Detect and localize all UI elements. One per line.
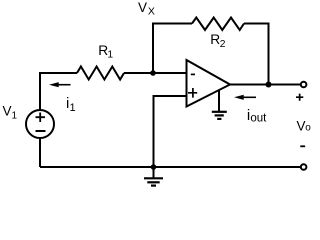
svg-text:o: o xyxy=(305,123,311,134)
output terminal bottom xyxy=(301,164,307,170)
label iout xyxy=(247,107,267,125)
svg-text:X: X xyxy=(148,6,155,18)
current arrow iout xyxy=(234,95,256,100)
label + at output xyxy=(296,94,303,101)
bottom rail wire xyxy=(40,166,301,168)
label R2 xyxy=(210,32,225,50)
label V1 xyxy=(3,104,18,122)
svg-text:V: V xyxy=(138,0,147,15)
label VX xyxy=(138,0,155,18)
svg-text:2: 2 xyxy=(220,39,226,50)
svg-text:out: out xyxy=(250,113,267,125)
feedback wire up from node and across to R2 xyxy=(153,24,192,74)
current arrow i1 xyxy=(49,82,71,87)
feedback wire from R2 down to output node xyxy=(244,24,269,85)
wire op-amp noninverting input xyxy=(154,96,187,167)
output wire from op-amp xyxy=(230,84,301,86)
node junction dot at inverting input xyxy=(150,70,156,76)
output terminal top xyxy=(301,82,307,88)
node junction dot at output xyxy=(266,82,272,88)
label - at output xyxy=(300,145,305,147)
wire from V1 bottom to bottom rail xyxy=(39,138,41,167)
voltage source V1 xyxy=(26,110,54,138)
label Vo xyxy=(297,118,312,133)
svg-text:1: 1 xyxy=(107,49,113,60)
svg-text:V: V xyxy=(297,118,306,133)
label i1 xyxy=(66,95,76,114)
svg-text:1: 1 xyxy=(12,111,18,122)
svg-text:1: 1 xyxy=(70,102,76,114)
ground at bottom rail xyxy=(144,167,163,186)
ground at op-amp xyxy=(212,90,227,119)
svg-text:V: V xyxy=(3,104,12,119)
op-amp U1 xyxy=(187,60,231,107)
wire from R1 to op-amp inverting input xyxy=(124,72,187,74)
resistor R1 xyxy=(77,67,124,80)
node junction dot on bottom rail xyxy=(151,164,157,170)
label R1 xyxy=(98,43,113,61)
resistor R2 xyxy=(192,18,244,31)
wire from V1 top up and right to R1 xyxy=(40,73,77,110)
